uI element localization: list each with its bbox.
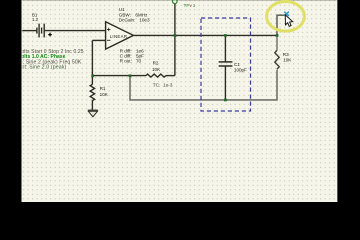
svg-text:6MHz: 6MHz — [135, 12, 148, 17]
svg-text:1e-3: 1e-3 — [163, 82, 173, 87]
svg-text:TC:: TC: — [153, 82, 160, 87]
svg-text:10e3: 10e3 — [139, 18, 150, 23]
svg-text:LINEAR: LINEAR — [110, 34, 128, 39]
svg-text:R out:: R out: — [120, 58, 132, 63]
svg-text:1: 1 — [193, 3, 196, 8]
svg-text:R3: R3 — [283, 52, 289, 57]
svg-text:C1: C1 — [234, 62, 240, 67]
svg-text:R1: R1 — [100, 86, 106, 91]
svg-text:10K: 10K — [283, 58, 292, 63]
svg-text:GBW:: GBW: — [119, 12, 131, 17]
svg-text:100pF: 100pF — [234, 68, 247, 73]
svg-text:DcGain:: DcGain: — [119, 18, 136, 23]
svg-text:R2: R2 — [153, 61, 159, 66]
svg-text:70: 70 — [136, 58, 142, 63]
svg-text:U1: U1 — [119, 7, 125, 12]
svg-text:1.2: 1.2 — [32, 17, 39, 22]
svg-text:10K: 10K — [100, 92, 109, 97]
svg-text:10K: 10K — [152, 67, 161, 72]
